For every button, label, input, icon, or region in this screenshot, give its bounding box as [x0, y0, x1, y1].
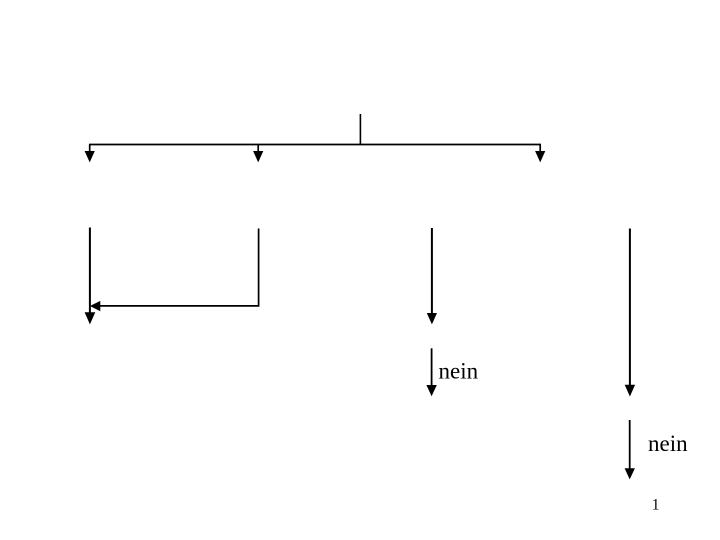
svg-text:nein: nein [439, 358, 479, 383]
svg-text:1: 1 [652, 496, 660, 513]
svg-text:nein: nein [648, 431, 688, 456]
